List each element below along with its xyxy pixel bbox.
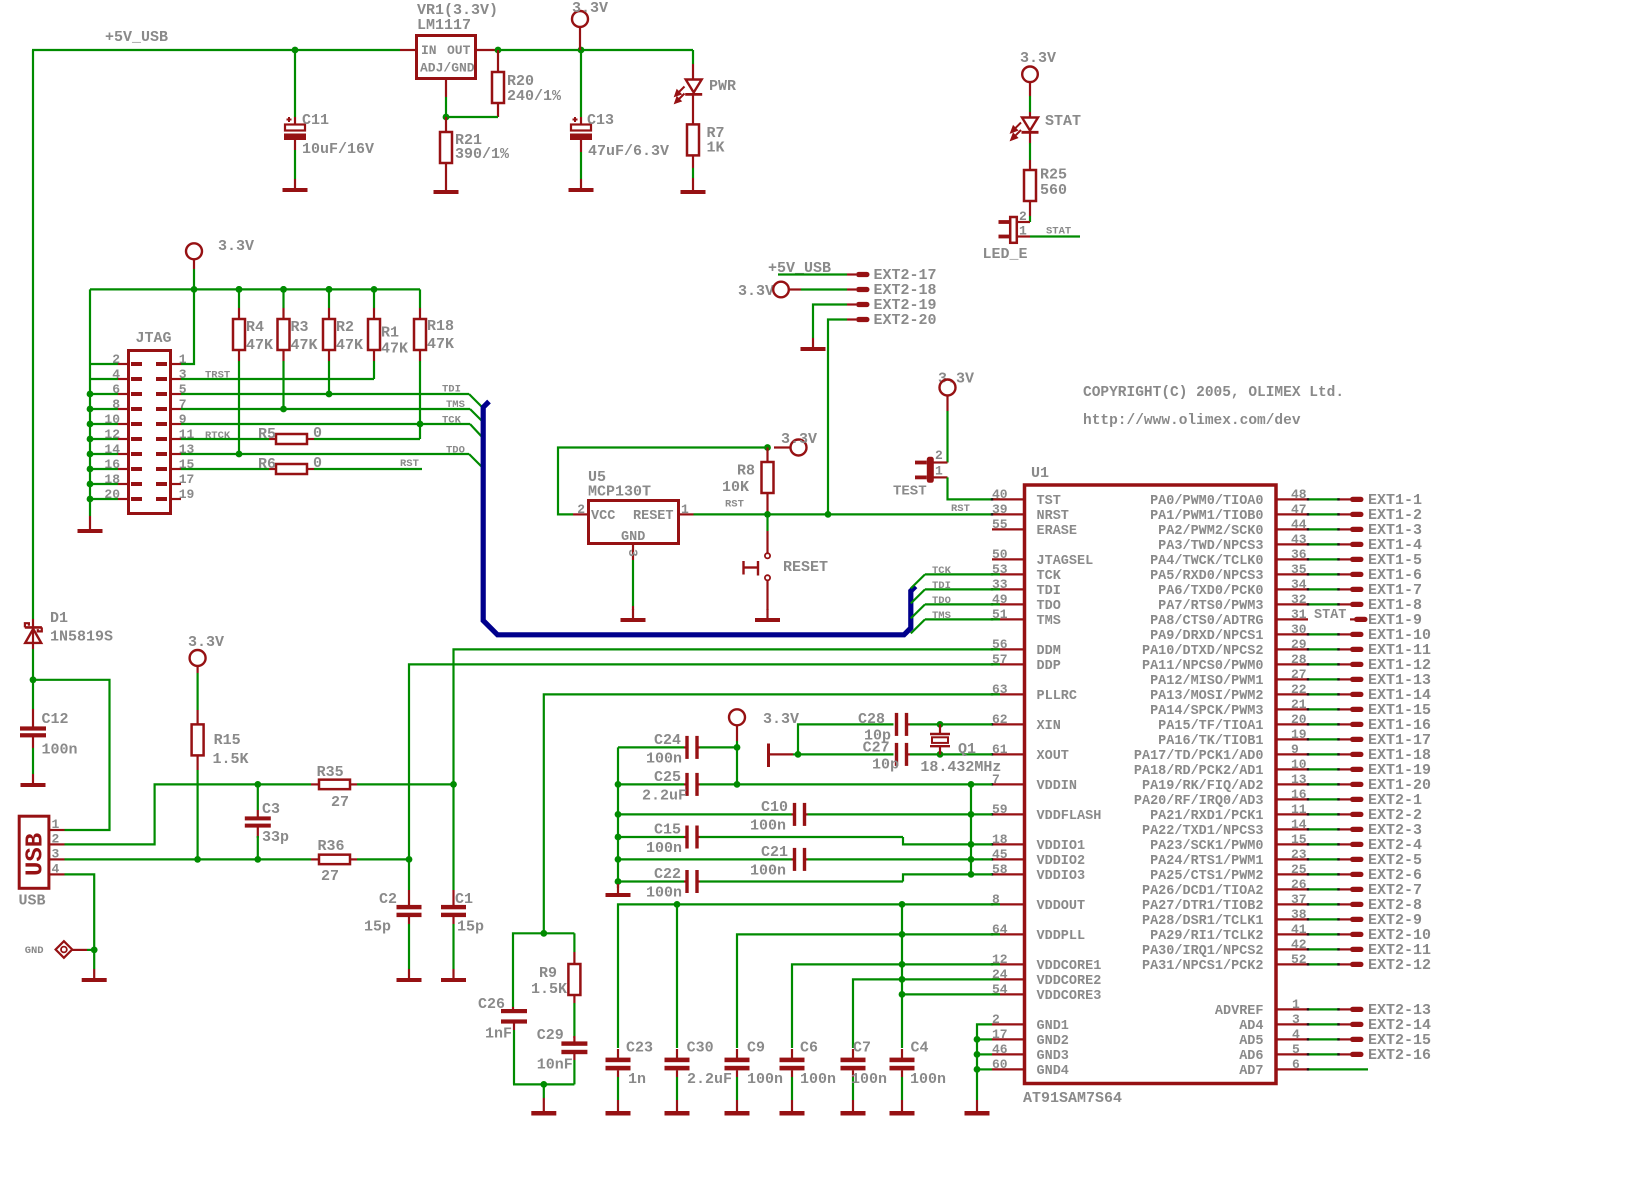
ground under R21: [445, 181, 447, 190]
svg-text:XOUT: XOUT: [1037, 749, 1069, 764]
junction JTAG gnd: [87, 436, 94, 443]
svg-text:PA8/CTS0/ADTRG: PA8/CTS0/ADTRG: [1150, 614, 1263, 629]
junction C3 bottom: [254, 856, 261, 863]
wire filter left: [513, 933, 544, 1007]
svg-text:35: 35: [1291, 562, 1307, 577]
wire R5 to R18 column: [314, 438, 420, 440]
pin U1 XOUT 61: [992, 753, 1023, 755]
svg-text:1: 1: [1019, 224, 1027, 239]
junction gnd row: [974, 1051, 981, 1058]
wire VDD vertical rail: [970, 784, 972, 874]
junction VDDCORE3 col: [899, 991, 906, 998]
svg-text:PA19/RK/FIQ/AD2: PA19/RK/FIQ/AD2: [1142, 779, 1264, 794]
svg-text:3.3V: 3.3V: [1020, 50, 1056, 67]
svg-text:50: 50: [992, 547, 1008, 562]
svg-text:AD5: AD5: [1239, 1034, 1263, 1049]
svg-text:47K: 47K: [291, 337, 318, 354]
gnd pad symbol: [56, 941, 73, 958]
svg-text:PA17/TD/PCK1/AD0: PA17/TD/PCK1/AD0: [1134, 749, 1264, 764]
wire NRST: [694, 513, 1001, 515]
junction VDD rail VDDIO3: [968, 871, 975, 878]
svg-text:U1: U1: [1031, 465, 1049, 482]
capacitor C12: [32, 680, 34, 709]
wire C24 bus down: [617, 747, 619, 888]
supply 3.3V at R8: [774, 446, 791, 448]
svg-text:PA31/NPCS1/PCK2: PA31/NPCS1/PCK2: [1142, 959, 1264, 974]
svg-text:2.2uF: 2.2uF: [687, 1071, 732, 1088]
wire C28 left: [798, 724, 894, 754]
svg-text:15p: 15p: [364, 919, 391, 936]
wire TDO into bus: [469, 454, 483, 468]
svg-text:TDI: TDI: [932, 580, 951, 592]
svg-text:PA28/DSR1/TCLK1: PA28/DSR1/TCLK1: [1142, 914, 1264, 929]
svg-text:3.3V: 3.3V: [572, 0, 608, 17]
JTAG pin 20: [118, 498, 129, 500]
svg-text:OUT: OUT: [447, 43, 471, 58]
wire C30 drop: [676, 904, 678, 1048]
svg-text:AD6: AD6: [1239, 1049, 1263, 1064]
pin U1 VDDIO3 58: [992, 873, 1023, 875]
junction C30 top: [674, 901, 681, 908]
pin U1 PA3/TWD/NPCS3 43 -> EXT1-4: [1278, 543, 1309, 545]
wire 3.3V rail top: [498, 49, 693, 51]
svg-text:R36: R36: [318, 838, 345, 855]
svg-text:PA18/RD/PCK2/AD1: PA18/RD/PCK2/AD1: [1134, 764, 1264, 779]
pin U1 PA29/RI1/TCLK2 41 -> EXT2-10: [1278, 933, 1309, 935]
LED PWR: [692, 50, 694, 64]
JTAG pin 1: [171, 363, 182, 365]
JTAG pin 17: [171, 483, 182, 485]
pin U1 GND3 46: [992, 1053, 1023, 1055]
junction gnd row: [974, 1066, 981, 1073]
connector LED_E: [1010, 217, 1017, 243]
pin U1 PA10/DTXD/NPCS2 29 -> EXT1-11: [1278, 648, 1309, 650]
ground under PLL filter: [543, 1084, 545, 1098]
ground under C6: [791, 1102, 793, 1111]
svg-text:C28: C28: [858, 711, 885, 728]
IC U5 MCP130T: [589, 501, 679, 544]
wire +5V_USB left drop to D1: [32, 50, 34, 619]
svg-text:1K: 1K: [707, 140, 725, 157]
resistor R1: [373, 289, 375, 308]
pin U1 PA23/SCK1/PWM0 15 -> EXT2-4: [1278, 843, 1309, 845]
ground under C13: [580, 179, 582, 188]
wire JTAG pullup rail: [90, 288, 420, 290]
svg-text:RESET: RESET: [783, 559, 828, 576]
junction at C11: [292, 47, 299, 54]
junction at C13 / 3.3V: [578, 47, 585, 54]
resistor R35: [311, 783, 319, 785]
svg-text:2: 2: [1019, 209, 1027, 224]
wire JTAG even pin: [90, 438, 118, 440]
svg-text:LED_E: LED_E: [983, 246, 1028, 263]
svg-text:240/1%: 240/1%: [507, 88, 562, 105]
wire 3.3V to VDDIN: [736, 747, 738, 784]
capacitor C1: [452, 890, 454, 906]
svg-text:37: 37: [1291, 892, 1307, 907]
svg-text:10K: 10K: [722, 479, 749, 496]
resistor R20: [497, 50, 499, 72]
svg-text:http://www.olimex.com/dev: http://www.olimex.com/dev: [1083, 413, 1301, 429]
resistor R36: [311, 858, 319, 860]
svg-text:PA20/RF/IRQ0/AD3: PA20/RF/IRQ0/AD3: [1134, 794, 1264, 809]
wire gnd row: [977, 1068, 992, 1070]
pin U1 PA2/PWM2/SCK0 44 -> EXT1-3: [1278, 528, 1309, 530]
svg-text:PA5/RXD0/NPCS3: PA5/RXD0/NPCS3: [1150, 569, 1263, 584]
resistor R2: [328, 289, 330, 308]
pin U1 DDM 56: [992, 648, 1023, 650]
IC U1 AT91SAM7S64 box: [1025, 485, 1277, 1084]
svg-text:32: 32: [1291, 592, 1307, 607]
svg-text:NRST: NRST: [1037, 509, 1069, 524]
svg-text:PA2/PWM2/SCK0: PA2/PWM2/SCK0: [1158, 524, 1263, 539]
svg-text:RST: RST: [951, 503, 970, 515]
svg-text:RST: RST: [725, 499, 744, 511]
junction 3.3V JTAG rail: [191, 286, 198, 293]
resistor R3: [282, 289, 284, 308]
wire USB pin2 to R35: [65, 784, 312, 844]
svg-text:AD4: AD4: [1239, 1019, 1263, 1034]
svg-text:PA22/TXD1/NPCS3: PA22/TXD1/NPCS3: [1142, 824, 1264, 839]
svg-text:26: 26: [1291, 877, 1307, 892]
svg-text:R3: R3: [291, 319, 309, 336]
svg-text:41: 41: [1291, 922, 1307, 937]
wire STAT net: [1030, 235, 1080, 237]
wire TMS into bus: [470, 409, 483, 422]
svg-text:TCK: TCK: [932, 565, 952, 577]
junction R4: [236, 286, 243, 293]
junction VDDOUT col: [899, 901, 906, 908]
svg-text:30: 30: [1291, 622, 1307, 637]
svg-text:39: 39: [992, 502, 1008, 517]
svg-text:C24: C24: [654, 732, 681, 749]
svg-text:ADVREF: ADVREF: [1215, 1004, 1264, 1019]
wire TDI from bus: [911, 589, 925, 603]
ground under C30: [676, 1102, 678, 1111]
svg-text:VDDIO3: VDDIO3: [1037, 869, 1086, 884]
svg-text:C7: C7: [853, 1040, 871, 1057]
capacitor C27: [895, 743, 898, 766]
pin U1 TDO 49: [992, 603, 1023, 605]
svg-text:C2: C2: [379, 891, 397, 908]
junction JTAG gnd: [87, 391, 94, 398]
pin U1 TST 40: [992, 498, 1023, 500]
svg-text:18: 18: [992, 832, 1008, 847]
pin U1 PA18/RD/PCK2/AD1 10 -> EXT1-19: [1278, 768, 1309, 770]
svg-text:55: 55: [992, 517, 1008, 532]
svg-text:3.3V: 3.3V: [738, 283, 774, 300]
svg-text:C12: C12: [42, 711, 69, 728]
svg-text:EXT2-20: EXT2-20: [874, 312, 937, 329]
wire R36 to DDP column: [357, 858, 409, 860]
ground under U5: [632, 609, 634, 618]
junction C25 left: [615, 781, 622, 788]
svg-text:1nF: 1nF: [485, 1026, 512, 1043]
wire C22 jog to VDDIO3: [903, 874, 992, 881]
capacitor C25: [618, 783, 684, 785]
wire VDDOUT row: [618, 904, 1000, 1048]
svg-text:3.3V: 3.3V: [218, 238, 254, 255]
svg-text:PA13/MOSI/PWM2: PA13/MOSI/PWM2: [1150, 689, 1263, 704]
svg-text:R1: R1: [381, 325, 399, 342]
svg-text:PA16/TK/TIOB1: PA16/TK/TIOB1: [1158, 734, 1263, 749]
svg-text:29: 29: [1291, 637, 1307, 652]
pin U1 JTAGSEL 50: [992, 558, 1023, 560]
ground under JTAG: [89, 516, 91, 529]
pin U1 XIN 62: [992, 723, 1023, 725]
svg-text:47uF/6.3V: 47uF/6.3V: [588, 143, 669, 160]
junction rail R2: [326, 286, 333, 293]
ground under USB: [93, 950, 95, 969]
pin U1 PA19/RK/FIQ/AD2 13 -> EXT1-20: [1278, 783, 1309, 785]
svg-text:VDDCORE2: VDDCORE2: [1037, 974, 1102, 989]
wire JTAG even pin: [90, 468, 118, 470]
resistor R18: [419, 289, 421, 308]
pin U1 PA20/RF/IRQ0/AD3 16 -> EXT2-1: [1278, 798, 1309, 800]
wire VDDCORE2 row: [853, 979, 1000, 1048]
svg-text:34: 34: [1291, 577, 1307, 592]
connector USB box: [19, 816, 49, 888]
wire TMS from bus: [911, 619, 925, 633]
svg-text:38: 38: [1291, 907, 1307, 922]
svg-text:31: 31: [1291, 607, 1307, 622]
wire gnd row: [977, 1053, 992, 1055]
svg-text:TCK: TCK: [1037, 569, 1062, 584]
svg-text:21: 21: [1291, 697, 1307, 712]
wire JTAG even pin: [90, 363, 118, 365]
junction JTAG gnd: [87, 406, 94, 413]
svg-text:59: 59: [992, 802, 1008, 817]
svg-text:STAT: STAT: [1046, 226, 1071, 238]
capacitor C28: [895, 713, 898, 736]
pin U1 PA8/CTS0/ADTRG 31 -> EXT1-9: [1278, 618, 1309, 620]
LED STAT: [1022, 118, 1038, 131]
junction VR1 OUT: [495, 47, 502, 54]
junction PLLRC filter: [540, 930, 547, 937]
pin U5 GND 3: [632, 544, 634, 561]
pin U1 PA0/PWM0/TIOA0 48 -> EXT1-1: [1278, 498, 1309, 500]
junction XOUT: [937, 751, 944, 758]
wire gnd row: [977, 1038, 992, 1040]
svg-text:3: 3: [625, 549, 640, 557]
pin USB 1: [49, 829, 65, 831]
capacitor C21: [618, 858, 792, 860]
svg-text:PA27/DTR1/TIOB2: PA27/DTR1/TIOB2: [1142, 899, 1264, 914]
junction NRST R8: [764, 511, 771, 518]
svg-text:VDDCORE3: VDDCORE3: [1037, 989, 1102, 1004]
svg-text:IN: IN: [421, 43, 437, 58]
pin U1 PA26/DCD1/TIOA2 26 -> EXT2-7: [1278, 888, 1309, 890]
wire rail left drop: [89, 289, 91, 364]
junction NRST EXT2-20: [825, 511, 832, 518]
svg-text:C11: C11: [302, 112, 329, 129]
svg-text:R18: R18: [427, 318, 454, 335]
wire TDI into bus: [469, 394, 483, 408]
svg-text:10: 10: [1291, 757, 1307, 772]
junction filter gnd: [540, 1081, 547, 1088]
wire TCK: [181, 423, 470, 425]
pin U1 AD6 5: [1278, 1053, 1309, 1055]
svg-text:15p: 15p: [457, 919, 484, 936]
JTAG pin 18: [118, 483, 129, 485]
pin USB 4: [49, 873, 65, 875]
svg-text:3.3V: 3.3V: [781, 431, 817, 448]
svg-text:1: 1: [681, 502, 689, 517]
svg-text:PA29/RI1/TCLK2: PA29/RI1/TCLK2: [1150, 929, 1263, 944]
junction JTAG gnd: [87, 481, 94, 488]
svg-text:USB: USB: [23, 833, 50, 876]
svg-text:TDO: TDO: [1037, 599, 1061, 614]
pin VR1 OUT: [477, 49, 498, 51]
junction C22 left: [615, 878, 622, 885]
pin VR1 ADJ: [445, 80, 447, 97]
svg-text:C4: C4: [911, 1040, 929, 1057]
pin U1 AD7 6: [1278, 1068, 1309, 1070]
svg-text:10p: 10p: [872, 757, 899, 774]
JTAG pin 19: [171, 498, 182, 500]
wire VDDCORE1 row: [792, 964, 1000, 1048]
ground under C9: [736, 1102, 738, 1111]
pin U1 PLLRC 63: [992, 693, 1023, 695]
pin U5 VCC 2: [573, 513, 589, 515]
svg-text:PA26/DCD1/TIOA2: PA26/DCD1/TIOA2: [1142, 884, 1264, 899]
svg-text:1: 1: [52, 817, 60, 832]
svg-text:C22: C22: [654, 866, 681, 883]
capacitor C4: [901, 1049, 903, 1058]
wire RST pin15 to R6: [181, 468, 269, 470]
wire DDP: [409, 664, 1000, 890]
svg-text:TDO: TDO: [932, 595, 951, 607]
wire TMS: [181, 408, 470, 410]
ground under C23: [617, 1102, 619, 1111]
junction JTAG gnd: [87, 466, 94, 473]
svg-text:47K: 47K: [246, 337, 273, 354]
svg-text:1: 1: [1292, 997, 1300, 1012]
JTAG pin 9: [171, 423, 182, 425]
wire PLLRC: [544, 694, 1000, 933]
svg-text:47: 47: [1291, 502, 1307, 517]
svg-text:GND1: GND1: [1037, 1019, 1069, 1034]
svg-text:DDP: DDP: [1037, 659, 1061, 674]
svg-text:27: 27: [1291, 667, 1307, 682]
svg-text:TMS: TMS: [932, 610, 951, 622]
capacitor C3: [257, 784, 259, 810]
wire U5 VCC loop: [558, 448, 766, 515]
junction gnd row: [974, 1036, 981, 1043]
svg-text:MCP130T: MCP130T: [588, 484, 651, 501]
pin U1 PA12/MISO/PWM1 27 -> EXT1-13: [1278, 678, 1309, 680]
junction XIN: [937, 721, 944, 728]
svg-text:36: 36: [1291, 547, 1307, 562]
svg-text:VDDIO1: VDDIO1: [1037, 839, 1086, 854]
svg-text:GND: GND: [25, 945, 44, 957]
svg-text:100n: 100n: [646, 885, 682, 902]
svg-text:9: 9: [1291, 742, 1299, 757]
capacitor C13: [580, 50, 582, 117]
supply 3.3V at JTAG: [186, 243, 202, 259]
svg-text:COPYRIGHT(C) 2005, OLIMEX Ltd.: COPYRIGHT(C) 2005, OLIMEX Ltd.: [1083, 385, 1344, 401]
svg-text:PA11/NPCS0/PWM0: PA11/NPCS0/PWM0: [1142, 659, 1264, 674]
svg-text:28: 28: [1291, 652, 1307, 667]
pin U1 ERASE 55: [992, 528, 1023, 530]
supply 3.3V at R15: [190, 650, 206, 666]
svg-text:R4: R4: [246, 319, 264, 336]
svg-text:R9: R9: [539, 965, 557, 982]
wire GND rail MCU: [977, 1024, 992, 1100]
junction rail R4: [236, 286, 243, 293]
svg-text:3.3V: 3.3V: [763, 711, 799, 728]
svg-text:10uF/16V: 10uF/16V: [302, 141, 374, 158]
svg-text:USB: USB: [19, 893, 46, 910]
wire EXT2-20 to NRST: [828, 320, 847, 515]
pin U1 VDDIO2 45: [992, 858, 1023, 860]
resistor R15: [197, 666, 199, 673]
ground under EXT2-19 wire: [812, 338, 814, 347]
resistor R6: [269, 468, 276, 470]
svg-text:PA12/MISO/PWM1: PA12/MISO/PWM1: [1150, 674, 1263, 689]
wire EXT2-18: [789, 288, 801, 290]
junction JTAG gnd: [87, 451, 94, 458]
ground under RESET: [766, 609, 768, 618]
pin U1 PA22/TXD1/NPCS3 14 -> EXT2-3: [1278, 828, 1309, 830]
resistor R25: [1029, 133, 1031, 143]
wire JTAG GND bus: [89, 364, 91, 516]
junction JTAG gnd: [87, 496, 94, 503]
wire TRST pin3 to R1: [181, 378, 374, 380]
JTAG pin 3: [171, 378, 182, 380]
JTAG pin 6: [118, 393, 129, 395]
capacitor C29: [573, 1036, 575, 1046]
voltage regulator VR1 LM1117: [400, 49, 416, 51]
svg-text:4: 4: [1292, 1027, 1300, 1042]
svg-text:GND: GND: [621, 530, 645, 545]
svg-text:47K: 47K: [427, 336, 454, 353]
svg-text:2: 2: [992, 1012, 1000, 1027]
ground under C2: [408, 969, 410, 978]
junction C21 left: [615, 856, 622, 863]
svg-text:PA0/PWM0/TIOA0: PA0/PWM0/TIOA0: [1150, 494, 1263, 509]
svg-text:1N5819S: 1N5819S: [50, 629, 113, 646]
svg-text:STAT: STAT: [1314, 608, 1346, 623]
JTAG pin 15: [171, 468, 182, 470]
wire filter right: [544, 932, 575, 934]
connector JTAG box: [129, 351, 171, 514]
pin U1 GND4 60: [992, 1068, 1023, 1070]
svg-text:27: 27: [331, 794, 349, 811]
pin U1 TMS 51: [992, 618, 1023, 620]
svg-text:VDDOUT: VDDOUT: [1037, 899, 1086, 914]
JTAG pin 10: [118, 423, 129, 425]
wire EXT2-19: [813, 305, 847, 339]
svg-text:44: 44: [1291, 517, 1307, 532]
wire filter bottom: [513, 1083, 574, 1085]
connector TEST: [927, 457, 934, 483]
wire JTAG even pin: [90, 453, 118, 455]
svg-text:C30: C30: [687, 1040, 714, 1057]
wire DDM: [454, 649, 1001, 890]
svg-text:100n: 100n: [750, 863, 786, 880]
svg-text:R35: R35: [317, 764, 344, 781]
svg-text:TST: TST: [1037, 494, 1061, 509]
svg-text:ERASE: ERASE: [1037, 524, 1078, 539]
svg-text:PA6/TXD0/PCK0: PA6/TXD0/PCK0: [1158, 584, 1263, 599]
junction USB gnd: [91, 947, 98, 954]
JTAG pin 7: [171, 408, 182, 410]
supply 3.3V top: [572, 11, 588, 27]
junction VDD rail VDDIN: [968, 781, 975, 788]
junction ADJ/R21: [443, 114, 450, 121]
capacitor C30: [676, 1049, 678, 1058]
